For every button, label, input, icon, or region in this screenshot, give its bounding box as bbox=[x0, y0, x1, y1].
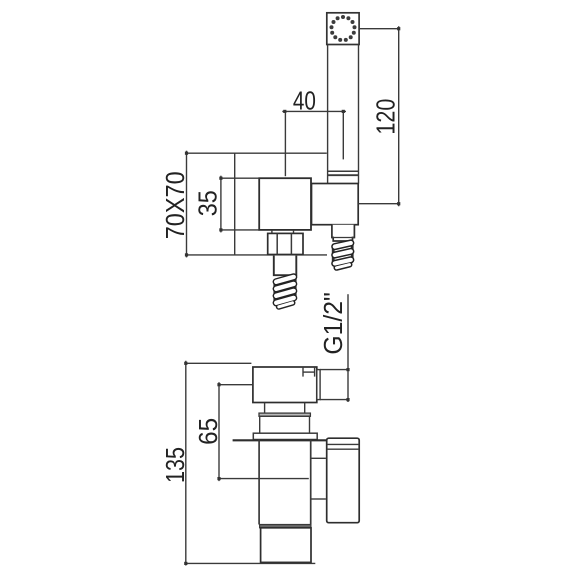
plate bottom edge bbox=[187, 254, 328, 256]
svg-text:65: 65 bbox=[193, 418, 223, 445]
plate top edge with 70x70 extension bbox=[187, 152, 327, 154]
outlet nipple bbox=[274, 256, 297, 276]
hex nut bbox=[268, 233, 303, 254]
dim 135 bbox=[185, 361, 187, 566]
spray face dots bbox=[330, 15, 357, 42]
tube seam bbox=[260, 525, 311, 528]
svg-text:70X70: 70X70 bbox=[160, 171, 190, 239]
plate left edge bbox=[234, 153, 236, 255]
holder hose coils bbox=[333, 243, 352, 268]
bonnet bbox=[260, 416, 310, 433]
body tube bbox=[258, 440, 260, 525]
neck below lever block bbox=[264, 403, 266, 414]
neck between block and nut bbox=[271, 230, 273, 234]
outlet hose coils bbox=[275, 277, 295, 307]
dim 40 bbox=[282, 110, 346, 112]
hand shower head bbox=[327, 13, 359, 45]
lever tab bbox=[302, 367, 304, 377]
holder bracket bbox=[312, 184, 359, 225]
holder arm side bbox=[311, 457, 326, 459]
valve body block bbox=[259, 178, 311, 230]
svg-text:120: 120 bbox=[370, 99, 400, 135]
bottom cap bbox=[261, 528, 311, 563]
flange bbox=[253, 433, 317, 439]
svg-text:G1/2": G1/2" bbox=[318, 292, 348, 355]
bonnet band bbox=[259, 413, 310, 416]
dim 35 bbox=[220, 176, 222, 233]
dim 120 bbox=[398, 26, 400, 206]
side handle bbox=[327, 438, 360, 523]
handle band bbox=[328, 170, 359, 172]
dim G1/2 bbox=[347, 294, 349, 402]
dim 65 bbox=[218, 382, 220, 481]
hand shower handle bbox=[327, 45, 329, 184]
svg-text:135: 135 bbox=[160, 447, 190, 483]
lever block bbox=[253, 367, 317, 403]
inlet stub G1/2 bbox=[317, 370, 320, 400]
wall line bbox=[233, 439, 327, 441]
svg-text:40: 40 bbox=[293, 85, 316, 115]
dim 70X70 bbox=[186, 151, 188, 258]
svg-text:35: 35 bbox=[192, 190, 222, 216]
holder nipple bbox=[332, 225, 355, 241]
